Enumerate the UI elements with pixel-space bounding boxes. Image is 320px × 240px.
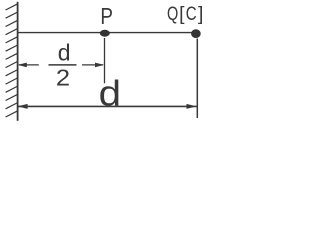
tick below P — [104, 38, 106, 83]
svg-text:C: C — [186, 2, 197, 24]
fraction bar — [49, 64, 77, 66]
wire top line P-Q — [18, 32, 196, 34]
bottom dimension right arrowhead — [187, 104, 197, 109]
svg-text:Q: Q — [167, 3, 178, 24]
node Q dot — [191, 29, 201, 38]
svg-text:P: P — [100, 4, 113, 29]
svg-text:]: ] — [198, 4, 203, 25]
wall hatching — [6, 4, 18, 117]
label 2 (fraction denominator) — [56, 66, 70, 92]
label d (fraction numerator) — [58, 40, 71, 66]
bottom dimension left arrowhead — [18, 104, 28, 109]
node P dot — [100, 30, 110, 37]
svg-text:[: [ — [179, 4, 185, 25]
d/2 dimension right arrow — [82, 64, 103, 66]
label d (bottom dimension) — [99, 74, 121, 115]
bottom dimension line — [18, 105, 197, 107]
svg-text:d: d — [99, 74, 121, 115]
d/2 dimension left arrow — [19, 64, 39, 66]
label Q[C] — [167, 3, 178, 24]
extension line below Q — [196, 39, 198, 119]
wall — [17, 2, 19, 121]
svg-text:2: 2 — [56, 66, 70, 92]
svg-text:d: d — [58, 40, 71, 66]
label P — [100, 4, 113, 29]
